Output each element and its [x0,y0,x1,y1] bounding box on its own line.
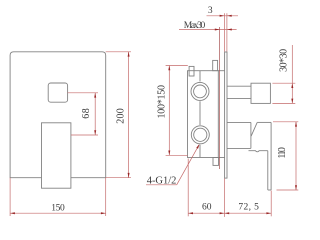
svg-text:30*30: 30*30 [279,49,290,72]
svg-text:3: 3 [208,6,213,16]
svg-text:150: 150 [51,203,65,213]
svg-text:4-G1/2: 4-G1/2 [147,175,177,186]
svg-text:68: 68 [81,108,92,119]
svg-text:72, 5: 72, 5 [238,202,259,212]
svg-text:100*150: 100*150 [157,85,168,119]
svg-text:60: 60 [202,203,212,213]
svg-text:Max30: Max30 [184,21,206,31]
svg-text:110: 110 [277,147,288,159]
svg-text:200: 200 [115,108,126,123]
